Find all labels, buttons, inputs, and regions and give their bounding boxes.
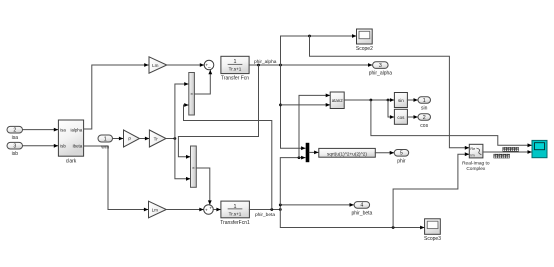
wire atan2 out to sin <box>344 98 394 102</box>
wire isb to clark <box>23 144 59 148</box>
wire phir_beta up to atan2 input1 <box>299 94 330 158</box>
wire phir_beta up to mux input2 <box>280 156 305 205</box>
svg-text:Tr.s+1: Tr.s+1 <box>229 67 242 72</box>
scope Scope3 <box>424 219 441 242</box>
wire sum2 to transfer fcn1 <box>213 208 221 212</box>
svg-text:sin: sin <box>398 98 404 103</box>
svg-text:2: 2 <box>13 128 16 134</box>
svg-text:+: + <box>209 206 212 211</box>
outport 3 phir_alpha <box>369 62 393 77</box>
label rotor flux chinese <box>494 154 510 158</box>
scope rotor flux (teal) <box>532 140 547 157</box>
outport 2 cos <box>418 114 431 129</box>
wire product1 out to sum1 bottom <box>194 70 212 94</box>
svg-text:×: × <box>190 92 193 98</box>
wire atan2 branch to cos <box>388 100 394 119</box>
svg-text:cos: cos <box>420 123 428 129</box>
transfer fcn block Transfer Fcn <box>221 56 249 81</box>
wire cos to outport2 <box>407 115 418 119</box>
svg-text:isb: isb <box>12 151 19 157</box>
svg-text:phir_beta: phir_beta <box>255 212 275 218</box>
svg-text:P: P <box>128 136 131 141</box>
wire branch to atan2 input2 <box>281 103 331 107</box>
wire phir_alpha up to Scope2 <box>281 34 357 65</box>
outport 4 phir_beta <box>351 202 372 217</box>
svg-text:wm: wm <box>101 145 109 151</box>
wire ialpha clark to Lm gain <box>84 63 149 129</box>
wire phir_beta net main <box>249 208 281 218</box>
wire phir_alpha feedback to product2 input1 <box>178 65 258 159</box>
svg-text:TransferFcn1: TransferFcn1 <box>220 220 250 226</box>
svg-text:Transfer Fcn: Transfer Fcn <box>221 75 249 81</box>
wire junction down to product2 input2 <box>175 139 191 181</box>
gain Lm <box>149 57 167 73</box>
wire phir_beta feedback to product1 input2 <box>184 103 272 209</box>
svg-text:ibeta: ibeta <box>73 144 83 149</box>
svg-text:phir_beta: phir_beta <box>351 210 372 216</box>
wire phir_alpha down to mux input1 <box>279 65 305 150</box>
wire junction up to product1 input1 <box>175 82 189 138</box>
inport 2 isa <box>7 126 23 141</box>
inport 1 wm <box>98 135 113 151</box>
svg-text:isa: isa <box>60 127 66 132</box>
svg-text:3: 3 <box>13 144 16 150</box>
svg-text:1: 1 <box>423 98 426 104</box>
svg-text:ialpha: ialpha <box>70 127 82 132</box>
subsystem clark <box>58 120 83 165</box>
trigonometry block cos <box>394 109 407 124</box>
svg-text:sin: sin <box>421 105 428 111</box>
svg-text:Tr: Tr <box>154 136 159 141</box>
svg-text:cos: cos <box>397 115 405 120</box>
transfer fcn block TransferFcn1 <box>220 201 250 226</box>
gain P <box>124 130 140 147</box>
gain Tr <box>149 130 166 147</box>
wire phir_alpha to Re input of Real-Imag <box>310 36 470 150</box>
wire wm to P <box>113 137 124 141</box>
outport 5 phir <box>394 150 409 165</box>
wire Tr to junction <box>166 137 176 140</box>
wire Real-Imag out to scope input2 <box>483 150 532 154</box>
svg-text:Re: Re <box>470 147 475 151</box>
wire Lm to sum1 <box>167 63 204 67</box>
svg-text:1: 1 <box>104 136 107 142</box>
product block Product <box>189 73 195 116</box>
wire phir_beta down to Scope3 <box>280 210 424 230</box>
wire product2 out to sum2 top <box>196 168 211 205</box>
svg-text:Complex: Complex <box>466 166 486 172</box>
mux Mux <box>306 143 319 162</box>
wire P to Tr <box>140 137 150 141</box>
svg-text:3: 3 <box>379 63 382 69</box>
wire phir_beta to outport4 <box>279 203 354 210</box>
svg-text:clark: clark <box>66 159 77 165</box>
sum block Sum1 <box>204 60 214 71</box>
svg-text:+: + <box>205 208 208 213</box>
svg-text:phir_alpha: phir_alpha <box>369 71 393 77</box>
svg-text:Im: Im <box>470 154 474 158</box>
trigonometry block atan2 <box>330 92 344 109</box>
wire phir_alpha net main to outport3 <box>249 59 372 67</box>
wire isa to clark <box>23 128 59 132</box>
wire sin to outport1 <box>407 98 418 102</box>
label angle chinese <box>503 147 519 151</box>
gain Lm1 <box>149 201 167 218</box>
svg-text:isb: isb <box>60 144 66 149</box>
svg-text:Lm: Lm <box>152 63 159 68</box>
sum block Sum2 <box>204 205 214 215</box>
svg-text:atan2: atan2 <box>332 98 344 103</box>
svg-text:sqrt(u(1)^2+u(2)^2): sqrt(u(1)^2+u(2)^2) <box>327 151 367 156</box>
product block Product1 <box>191 146 197 187</box>
svg-text:Scope2: Scope2 <box>356 46 373 52</box>
outport 1 sin <box>418 97 431 112</box>
svg-text:Real-Imag to: Real-Imag to <box>462 161 490 167</box>
svg-text:isa: isa <box>12 135 19 141</box>
svg-text:×: × <box>192 166 195 172</box>
svg-text:Lm: Lm <box>152 207 159 212</box>
svg-text:phir: phir <box>397 158 406 164</box>
trigonometry block sin <box>394 93 407 108</box>
svg-text:4: 4 <box>360 203 363 209</box>
svg-text:Scope3: Scope3 <box>424 236 441 242</box>
block Real-Imag to Complex <box>462 144 490 172</box>
wire branch to Im input of Real-Imag <box>393 152 469 227</box>
scope Scope2 <box>356 29 373 52</box>
svg-text:2: 2 <box>423 115 426 121</box>
svg-text:5: 5 <box>400 151 403 157</box>
wire ibeta clark to Lm1 gain <box>84 146 149 211</box>
svg-text:Tr.s+1: Tr.s+1 <box>229 211 242 216</box>
fcn block sqrt <box>319 148 376 157</box>
wire Lm1 to sum2 <box>166 208 203 212</box>
inport 3 isb <box>7 142 23 157</box>
wire sqrt to outport5 <box>375 151 394 155</box>
wire angle to scope input1 <box>371 100 532 147</box>
